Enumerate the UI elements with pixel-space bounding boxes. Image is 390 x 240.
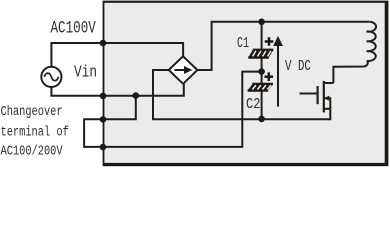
svg-text:V DC: V DC	[285, 57, 311, 74]
svg-text:C2: C2	[246, 97, 260, 114]
svg-text:Changeover: Changeover	[1, 103, 63, 119]
svg-text:terminal of: terminal of	[1, 124, 69, 140]
svg-text:AC100/200V: AC100/200V	[1, 143, 64, 159]
svg-text:Vin: Vin	[74, 62, 97, 82]
svg-text:AC100V: AC100V	[51, 17, 97, 38]
svg-text:C1: C1	[237, 34, 249, 52]
